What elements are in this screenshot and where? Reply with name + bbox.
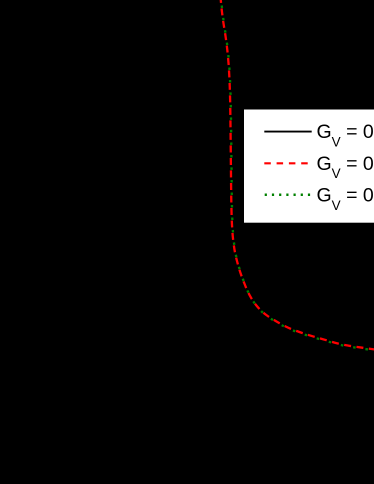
legend box — [244, 110, 374, 223]
curve G_V=0 (green dotted trace) — [221, 0, 374, 351]
legend sample: red dashed line — [264, 162, 308, 164]
curve G_V=0 (red dashed trace) — [221, 0, 374, 350]
legend sample: green dotted line — [265, 194, 312, 197]
legend sample: black solid line — [264, 131, 311, 133]
